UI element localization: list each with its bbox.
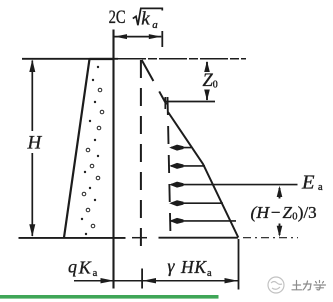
svg-text:0: 0 xyxy=(213,79,218,90)
svg-text:H: H xyxy=(27,133,43,154)
svg-text:a: a xyxy=(318,182,323,193)
svg-text:−: − xyxy=(271,203,281,222)
svg-text:H: H xyxy=(180,257,195,277)
svg-text:a: a xyxy=(152,19,158,31)
svg-text:a: a xyxy=(207,268,212,279)
svg-text:0: 0 xyxy=(292,212,297,223)
svg-text:)/3: )/3 xyxy=(298,203,317,222)
svg-text:K: K xyxy=(78,258,92,278)
svg-text:K: K xyxy=(193,257,207,277)
svg-text:k: k xyxy=(141,8,150,29)
svg-text:Z: Z xyxy=(283,203,293,222)
svg-text:E: E xyxy=(301,172,315,194)
svg-text:q: q xyxy=(68,257,77,277)
svg-text:(H: (H xyxy=(251,203,271,222)
svg-text:2C: 2C xyxy=(109,7,126,28)
svg-text:γ: γ xyxy=(167,256,175,276)
svg-text:a: a xyxy=(93,268,98,279)
